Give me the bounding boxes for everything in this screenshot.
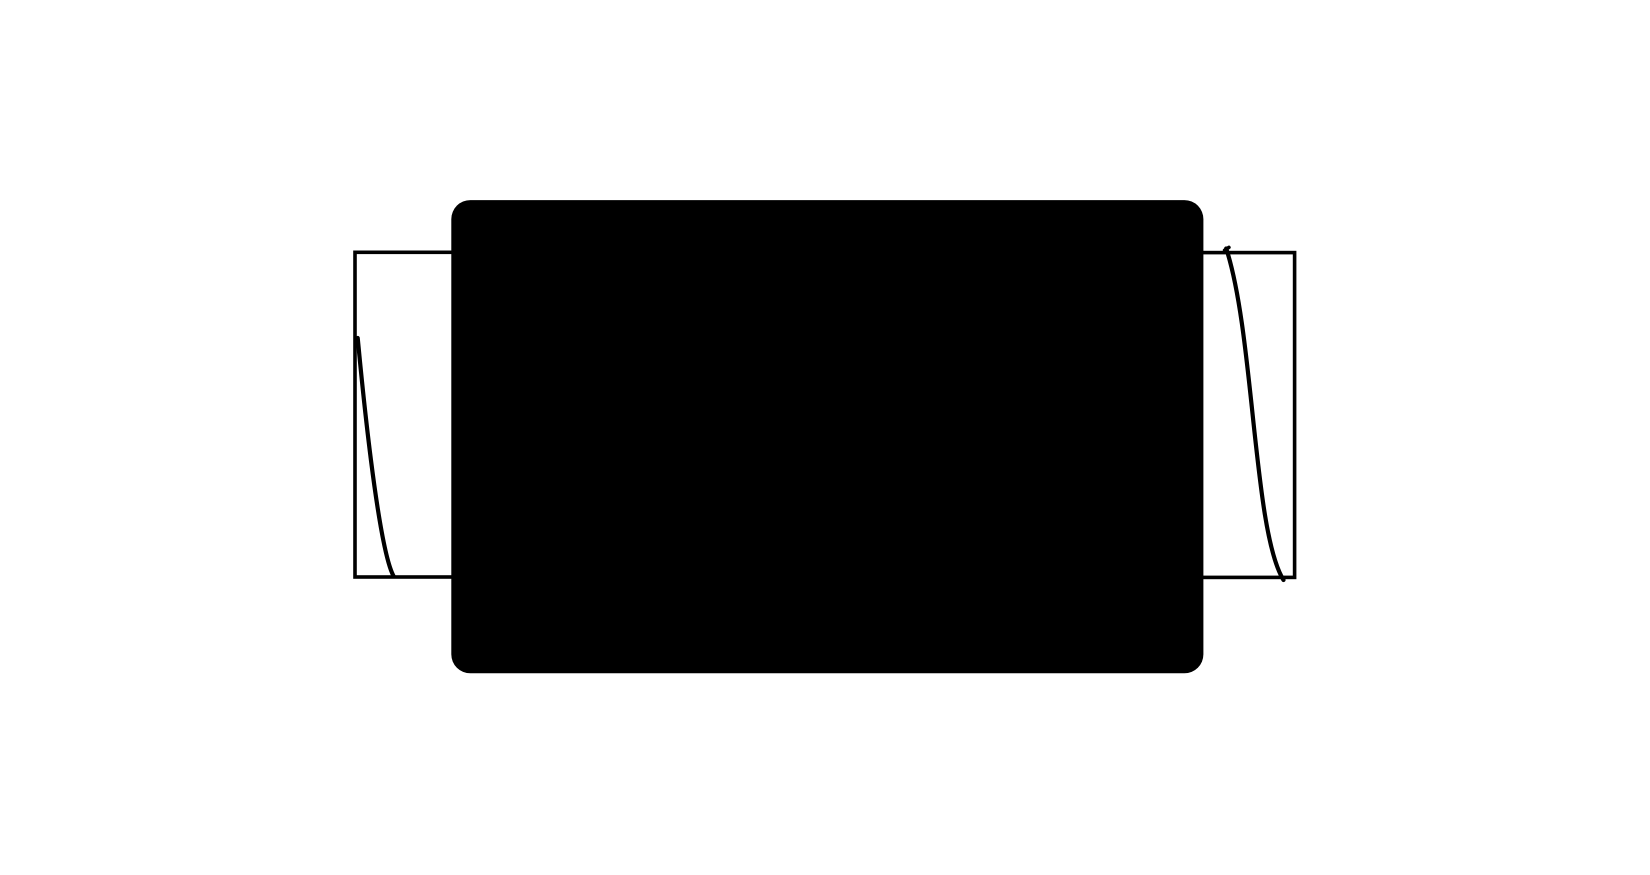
right terminal curve mark <box>1226 249 1283 581</box>
right terminal curve mark start tick <box>1225 247 1229 250</box>
component body <box>451 200 1203 673</box>
right terminal <box>1185 253 1295 578</box>
left terminal <box>355 252 470 577</box>
left terminal curve mark <box>358 338 394 576</box>
